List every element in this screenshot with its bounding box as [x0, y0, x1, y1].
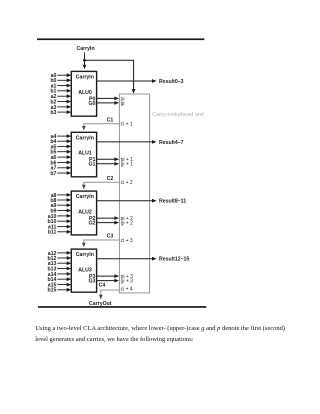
wire C2 carry to next ALU — [84, 182, 120, 185]
ALU0 box — [71, 71, 96, 116]
wire G2 to carry-lookahead gi + 2 — [97, 222, 115, 224]
wire C4 CarryOut — [101, 290, 120, 295]
junction CarryIn branch — [83, 59, 86, 62]
svg-text:CarryOut: CarryOut — [89, 301, 112, 307]
wire CarryIn branch to carry-lookahead c0 input — [85, 60, 134, 89]
svg-text:C3: C3 — [107, 234, 114, 240]
ALU1 box — [71, 132, 96, 177]
wire CarryIn vertical into ALU0 — [84, 53, 86, 65]
svg-text:CarryIn: CarryIn — [76, 252, 94, 258]
wire P3 to carry-lookahead pi + 3 — [97, 275, 115, 277]
svg-text:ALU1: ALU1 — [78, 151, 92, 157]
carry-lookahead unit box — [119, 94, 149, 293]
wire G0 to carry-lookahead gi — [97, 102, 115, 104]
top rule — [37, 38, 204, 40]
svg-text:gi: gi — [121, 101, 125, 107]
wire Result12–15 output — [97, 258, 152, 260]
svg-text:G3: G3 — [88, 279, 95, 285]
svg-text:b11: b11 — [48, 230, 57, 236]
svg-text:gi + 2: gi + 2 — [121, 221, 134, 227]
svg-text:Result0–3: Result0–3 — [159, 79, 184, 85]
svg-text:C4: C4 — [99, 283, 106, 289]
svg-text:b7: b7 — [50, 171, 56, 177]
svg-text:gi + 1: gi + 1 — [121, 162, 134, 168]
ALU2 box — [71, 191, 96, 235]
bottom rule — [38, 306, 206, 308]
svg-text:ci + 1: ci + 1 — [121, 122, 133, 128]
svg-text:ALU0: ALU0 — [78, 90, 92, 96]
wire Result4–7 output — [97, 141, 152, 143]
svg-text:Result4–7: Result4–7 — [159, 140, 184, 146]
svg-text:G1: G1 — [88, 162, 95, 168]
svg-text:ci + 4: ci + 4 — [121, 287, 133, 293]
svg-text:C2: C2 — [107, 176, 114, 182]
svg-text:CarryIn: CarryIn — [76, 135, 94, 141]
svg-text:ALU2: ALU2 — [78, 210, 92, 216]
wire G1 to carry-lookahead gi + 1 — [97, 163, 115, 165]
svg-text:G0: G0 — [88, 101, 95, 107]
svg-text:ci + 2: ci + 2 — [121, 180, 133, 186]
svg-text:ALU3: ALU3 — [78, 268, 92, 274]
svg-text:b3: b3 — [50, 110, 56, 116]
wire C3 carry to next ALU — [84, 240, 120, 243]
svg-text:gi + 3: gi + 3 — [121, 279, 134, 285]
svg-text:CarryIn: CarryIn — [76, 74, 94, 80]
wire C1 carry to next ALU — [84, 124, 120, 126]
wire G3 to carry-lookahead gi + 3 — [97, 280, 115, 282]
svg-text:b15: b15 — [47, 288, 56, 294]
svg-text:Carry-lookahead unit: Carry-lookahead unit — [152, 112, 204, 118]
svg-text:CarryIn: CarryIn — [77, 46, 95, 52]
svg-text:ci + 3: ci + 3 — [121, 238, 133, 244]
svg-text:CarryIn: CarryIn — [76, 194, 94, 200]
wire Result8–11 output — [97, 200, 152, 202]
wire P1 to carry-lookahead pi + 1 — [97, 158, 115, 160]
wire P2 to carry-lookahead pi + 2 — [97, 217, 115, 219]
svg-text:Result12–15: Result12–15 — [159, 257, 189, 263]
svg-text:Result8–11: Result8–11 — [159, 199, 186, 205]
svg-text:G2: G2 — [88, 221, 95, 227]
ALU3 box — [71, 249, 96, 292]
wire P0 to carry-lookahead pi — [97, 97, 115, 99]
svg-text:C1: C1 — [107, 118, 114, 124]
wire Result0–3 output — [97, 80, 152, 82]
